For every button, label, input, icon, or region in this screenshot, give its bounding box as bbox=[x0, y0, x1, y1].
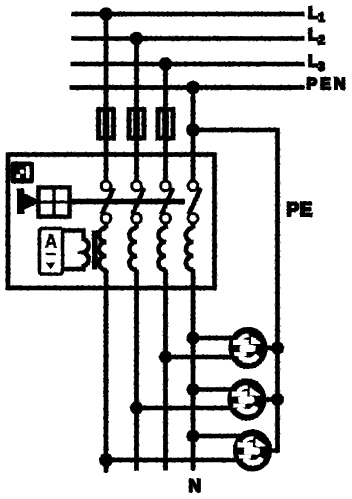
transformer core bbox=[93, 231, 98, 269]
transformer secondary coil bbox=[61, 231, 89, 270]
wire drive shaft bbox=[22, 199, 184, 204]
node socket2 phase bbox=[132, 404, 141, 413]
coil release pole 4 bbox=[186, 228, 193, 270]
wire vertical L3 bbox=[164, 64, 168, 470]
svg-text:N: N bbox=[189, 476, 202, 496]
svg-text:PE: PE bbox=[287, 200, 313, 221]
symbol meter icon bbox=[11, 162, 34, 183]
wire vertical L2 bbox=[135, 39, 139, 471]
switch pole 3 bbox=[161, 182, 173, 223]
ammeter A box bbox=[40, 229, 62, 274]
wire bus L3 bbox=[71, 62, 304, 66]
node socket2 N bbox=[189, 385, 198, 394]
wire socket3 phase L1 bbox=[106, 458, 243, 461]
socket outlet X1 bbox=[229, 328, 267, 369]
node socket2 PE bbox=[273, 395, 282, 404]
handle lever bbox=[18, 189, 37, 214]
node socket1 phase bbox=[161, 353, 170, 362]
wire bus PEN bbox=[70, 86, 304, 90]
wire PEN to PE bbox=[193, 130, 278, 451]
wire bus L1 bbox=[72, 12, 304, 16]
wire socket2 PE bbox=[258, 398, 281, 401]
coil release pole 2 bbox=[130, 228, 137, 270]
node socket1 PE bbox=[273, 344, 282, 353]
wire socket2 phase L2 bbox=[137, 406, 239, 409]
switch pole 4 bbox=[189, 182, 201, 223]
coil release pole 1 bbox=[99, 228, 106, 270]
node socket1 N bbox=[189, 334, 198, 343]
svg-text:PEN: PEN bbox=[307, 76, 349, 93]
fuse F2 bbox=[129, 110, 144, 139]
node socket3 phase bbox=[101, 455, 111, 465]
node L1 tap bbox=[101, 9, 110, 18]
gearbox cross box bbox=[39, 188, 69, 216]
node L3 tap bbox=[161, 59, 170, 68]
wire vertical L1 bbox=[104, 14, 108, 472]
wire socket3 N bbox=[193, 434, 243, 437]
switch pole 1 bbox=[102, 182, 114, 223]
wire socket1 PE bbox=[258, 346, 281, 349]
wire socket1 phase L3 bbox=[166, 355, 239, 358]
wire vertical PEN/N bbox=[191, 88, 195, 471]
socket outlet X3 bbox=[234, 430, 272, 471]
fuse F3 bbox=[158, 110, 173, 139]
switch pole 2 bbox=[132, 182, 144, 223]
coil release pole 3 bbox=[159, 228, 166, 270]
socket outlet X2 bbox=[228, 379, 266, 420]
fuse F1 bbox=[99, 110, 114, 139]
node PEN split bbox=[188, 125, 198, 135]
node L2 tap bbox=[132, 34, 141, 43]
enclosure switchboard box bbox=[8, 155, 215, 289]
wire socket1 N bbox=[193, 336, 240, 339]
node socket3 N bbox=[189, 432, 198, 441]
node PEN tap bbox=[188, 83, 197, 92]
wire bus L2 bbox=[72, 37, 304, 41]
wire socket2 N bbox=[193, 388, 238, 391]
